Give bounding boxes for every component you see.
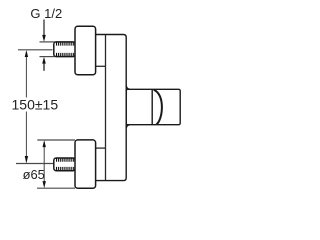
svg-text:ø65: ø65 xyxy=(23,167,45,182)
svg-text:G 1/2: G 1/2 xyxy=(30,6,62,21)
svg-text:150±15: 150±15 xyxy=(12,97,59,113)
